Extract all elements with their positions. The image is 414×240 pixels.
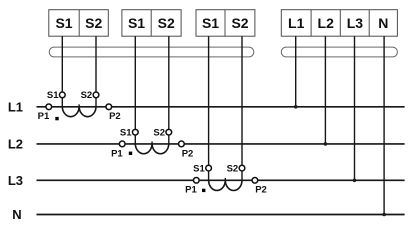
svg-text:P1: P1 xyxy=(185,185,197,196)
svg-text:P2: P2 xyxy=(109,111,121,122)
svg-text:L3: L3 xyxy=(347,15,364,31)
svg-text:S2: S2 xyxy=(153,128,165,139)
svg-text:L2: L2 xyxy=(8,137,23,152)
svg-text:S2: S2 xyxy=(81,90,93,101)
svg-text:S1: S1 xyxy=(120,128,132,139)
svg-text:S1: S1 xyxy=(193,164,205,175)
svg-text:S2: S2 xyxy=(158,15,175,31)
svg-text:L3: L3 xyxy=(8,173,23,188)
svg-text:S1: S1 xyxy=(202,15,219,31)
svg-text:P1: P1 xyxy=(111,148,123,159)
svg-text:L1: L1 xyxy=(8,100,23,115)
svg-text:S2: S2 xyxy=(227,164,239,175)
svg-text:P2: P2 xyxy=(182,148,194,159)
svg-text:S1: S1 xyxy=(128,15,145,31)
svg-text:S2: S2 xyxy=(231,15,248,31)
svg-text:L1: L1 xyxy=(288,15,305,31)
svg-text:S1: S1 xyxy=(47,90,59,101)
svg-text:N: N xyxy=(378,15,388,31)
svg-text:P2: P2 xyxy=(255,185,267,196)
svg-text:S2: S2 xyxy=(85,15,102,31)
svg-text:S1: S1 xyxy=(55,15,72,31)
svg-text:L2: L2 xyxy=(318,15,335,31)
svg-text:P1: P1 xyxy=(38,111,50,122)
svg-text:N: N xyxy=(12,207,21,222)
